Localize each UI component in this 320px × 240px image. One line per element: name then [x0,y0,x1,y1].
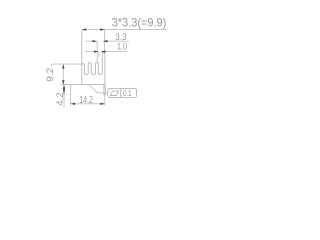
ext line 14.2 left [70,85,72,106]
leader diagonal to flatness frame [89,85,108,93]
flatness feature control frame box [108,89,137,98]
ext tick at y 94 for 4.2 [62,93,67,95]
arrowhead 4.2 bottom [63,90,65,95]
dim line 1.0 left segment [85,51,99,53]
svg-text:14.2: 14.2 [79,95,93,106]
svg-text:0.1: 0.1 [123,89,131,98]
ext line right of 9.9 [104,30,106,53]
dim line 4.2 vertical with tail [63,85,65,108]
arrowhead 14.2 left [71,103,76,105]
dim line 3.3 right segment [103,40,129,42]
dim line 14.2 [71,103,105,105]
ext line 14.2 right [104,95,106,106]
ext line left of 9.9 / part left edge [81,30,83,85]
part comb outline [82,53,105,85]
arrowhead right of 9.9 [100,28,105,30]
dim line 9.2 vertical [62,64,64,85]
arrowhead 14.2 right [100,103,105,105]
arrowhead 4.2 top [63,85,65,90]
arrowhead 9.2 bottom [62,80,64,85]
frame divider [120,89,122,98]
flatness symbol parallelogram [111,91,119,96]
svg-text:1.0: 1.0 [117,42,127,52]
arrowhead 1.0 left [94,50,99,52]
svg-text:3.3: 3.3 [115,31,126,42]
arrowhead 3.3 right [103,40,108,42]
ext line for 3.3 [96,41,98,62]
dim line 1.0 right segment [101,51,127,53]
svg-text:3*3.3(=9.9): 3*3.3(=9.9) [112,15,167,29]
bottom edge of body + ext line for 9.2/4.2 [61,84,105,86]
svg-text:4.2: 4.2 [55,92,65,106]
ext line top left for 9.2 [52,64,82,66]
dim line 3*3.3(=9.9) [82,29,167,31]
arrowhead 1.0 right [101,50,106,52]
svg-text:9.2: 9.2 [45,68,55,82]
arrowhead 3.3 left [92,40,97,42]
dim line 3.3 left segment [86,40,97,42]
arrowhead left of 9.9 [82,28,87,30]
ext line for 1.0 [98,52,100,57]
leg below body [104,85,105,95]
arrowhead 9.2 top [62,64,64,69]
